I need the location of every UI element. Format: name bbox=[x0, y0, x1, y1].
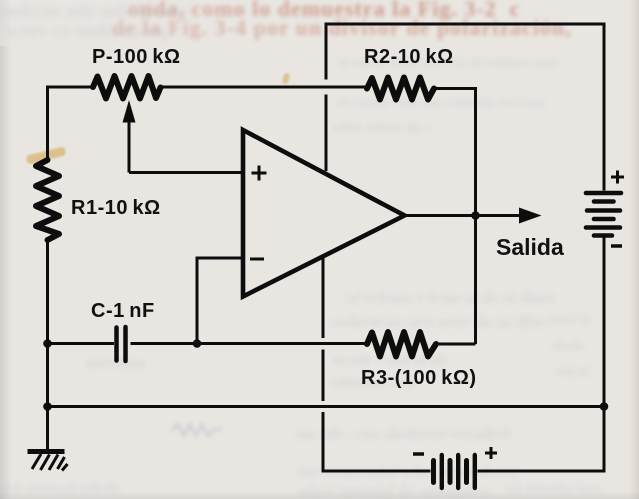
svg-text:C-1 nF: C-1 nF bbox=[91, 300, 155, 322]
wire: right rail from B1 down and bottom battery wire right side bbox=[478, 238, 605, 472]
wire: y87 bus from pot to R2 bbox=[158, 86, 367, 89]
tan tape smudge on R1 bbox=[26, 146, 67, 164]
battery B2 - label bbox=[413, 452, 424, 456]
wire: V- pin lower segment to bottom battery B2 bbox=[323, 412, 431, 471]
wire: - input from C node to op-amp bbox=[197, 258, 241, 344]
wire: top-left from pot to left rail bbox=[48, 87, 94, 160]
svg-text:Salida: Salida bbox=[496, 234, 564, 260]
node: C right / minus-input junction bbox=[193, 339, 202, 348]
node: C left junction bbox=[43, 339, 52, 348]
wire: R3 right stub bbox=[436, 343, 476, 346]
wire: C bus left segment bbox=[48, 342, 115, 345]
wire: + input from wiper to op-amp bbox=[129, 171, 241, 174]
wire: ground bus y406 bbox=[48, 405, 605, 408]
wire: R2 right corner down feedback column to R3 bbox=[434, 89, 476, 345]
node: output junction bbox=[471, 211, 480, 220]
op-amp + input mark bbox=[252, 166, 267, 181]
ground symbol bbox=[28, 452, 68, 471]
node: ground bus left junction bbox=[43, 402, 52, 411]
capacitor C plates bbox=[117, 327, 126, 361]
potentiometer P wiper arrow bbox=[123, 100, 136, 173]
resistor R1 zigzag bbox=[36, 160, 59, 240]
svg-text:P-100 kΩ: P-100 kΩ bbox=[92, 46, 181, 68]
wire: output from op-amp apex bbox=[405, 214, 521, 217]
svg-text:R3-(100 kΩ): R3-(100 kΩ) bbox=[361, 367, 477, 389]
resistor R2 zigzag bbox=[367, 78, 434, 100]
svg-text:R1-10 kΩ: R1-10 kΩ bbox=[71, 197, 161, 219]
svg-text:R2-10 kΩ: R2-10 kΩ bbox=[364, 46, 454, 68]
battery B1 right: plates bbox=[586, 193, 621, 236]
bleed-through decorative layers bbox=[0, 0, 12, 499]
battery B1 + label bbox=[611, 171, 624, 184]
battery B1 - label bbox=[611, 244, 622, 248]
potentiometer P zigzag bbox=[93, 76, 161, 99]
battery B2 bottom: plates bbox=[434, 455, 475, 488]
arrowhead of output Salida bbox=[519, 208, 542, 224]
wire: C bus to R3 bbox=[131, 342, 368, 345]
op-amp U1 triangle bbox=[243, 130, 405, 297]
wire: V+ pin lower segment (break at y87 crossing) bbox=[325, 95, 328, 172]
resistor R3 zigzag bbox=[367, 332, 436, 357]
wire: V+ rail top, over to right rail down to battery B1 bbox=[326, 24, 604, 191]
wire: V- pin upper segment bbox=[322, 258, 325, 338]
wire: left rail below R1 down to ground bbox=[46, 240, 49, 450]
op-amp - input mark bbox=[250, 258, 264, 261]
wire: V- pin middle segment (breaks at crossings) bbox=[322, 350, 325, 402]
battery B2 + label bbox=[485, 447, 497, 459]
node: ground bus right junction bbox=[600, 402, 609, 411]
